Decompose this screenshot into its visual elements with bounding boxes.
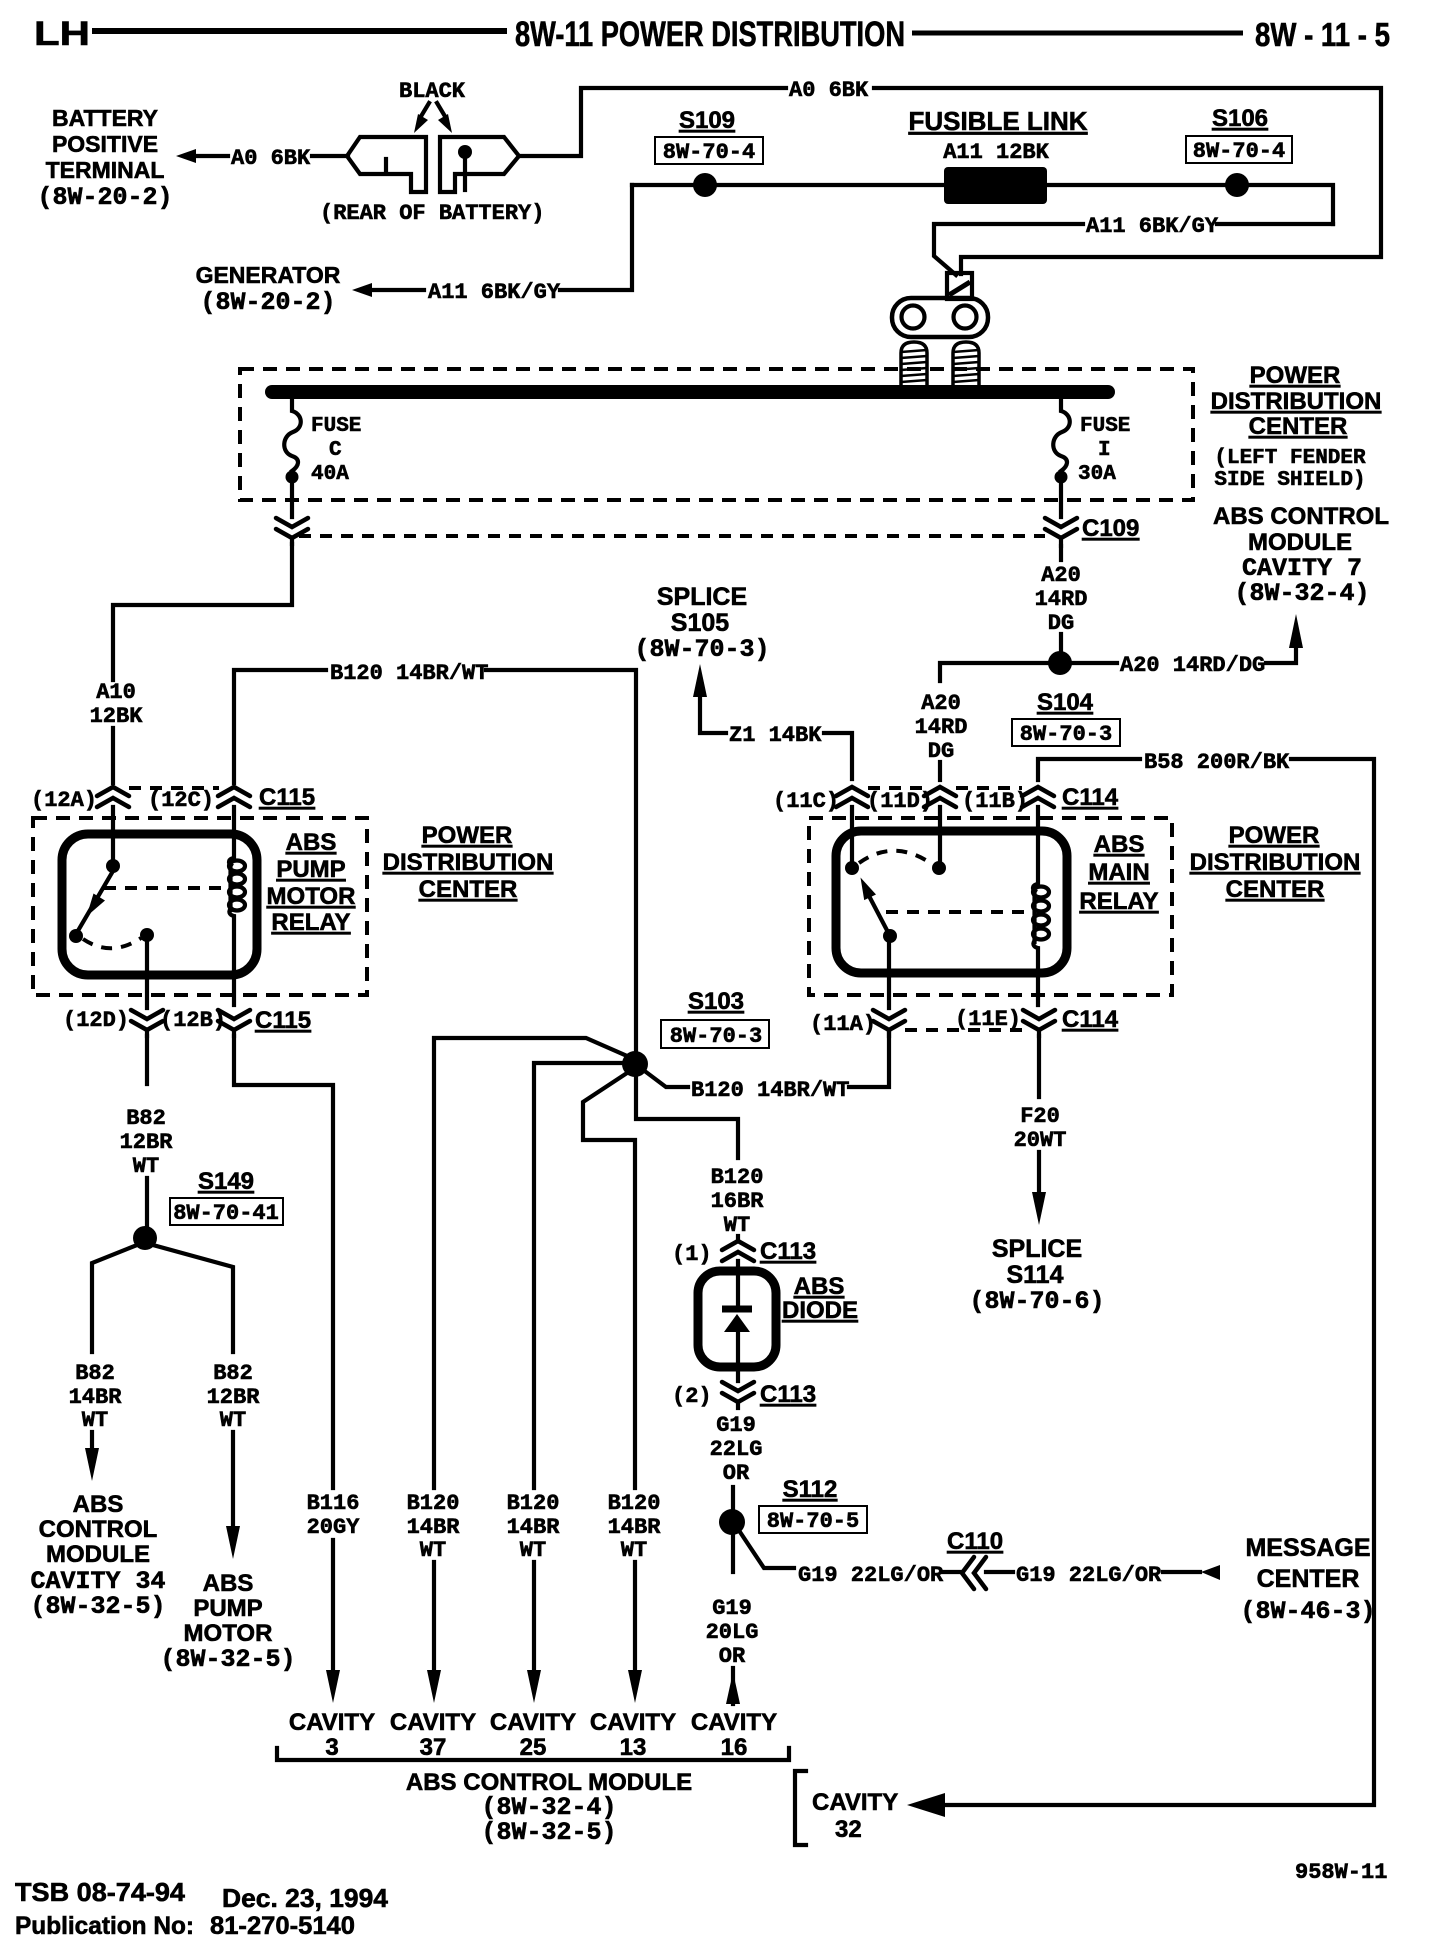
abs control module cavity 7 label: [1213, 503, 1389, 608]
svg-text:MODULE: MODULE: [46, 1541, 150, 1568]
main relay wire 11A internal: [887, 941, 891, 1008]
battery connector (rear of battery): [347, 137, 519, 192]
wire B120 14BR WT (S103 to cavity 37): [407, 1038, 627, 1703]
svg-text:B120: B120: [407, 1491, 460, 1516]
svg-text:POSITIVE: POSITIVE: [52, 131, 158, 157]
svg-text:A11 6BK/GY: A11 6BK/GY: [1086, 214, 1219, 239]
connector C114 pin 11D chevron: [867, 787, 956, 814]
relay NO contact dot: [69, 929, 83, 943]
connector C109 label: [1082, 515, 1139, 542]
svg-text:(12A): (12A): [31, 788, 97, 813]
svg-text:WT: WT: [420, 1538, 446, 1563]
splice S149: [133, 1168, 283, 1250]
power distribution center label (right): [1211, 362, 1382, 492]
svg-text:G19: G19: [716, 1413, 756, 1438]
fusible link element: [944, 167, 1047, 204]
svg-text:B82: B82: [213, 1361, 253, 1386]
wire B82 12BR WT (12D to S149): [120, 1036, 174, 1227]
svg-text:B58 200R/BK: B58 200R/BK: [1144, 750, 1290, 775]
svg-text:CAVITY: CAVITY: [812, 1789, 898, 1816]
svg-text:25: 25: [520, 1734, 547, 1761]
connector C110: [947, 1528, 1003, 1589]
svg-text:A0 6BK: A0 6BK: [789, 78, 869, 103]
svg-text:(8W-32-4): (8W-32-4): [1234, 579, 1369, 608]
wire A11 6BK/GY right segment: [934, 224, 1333, 275]
svg-text:B82: B82: [75, 1361, 115, 1386]
svg-text:C113: C113: [760, 1381, 816, 1408]
svg-text:S103: S103: [688, 988, 744, 1015]
main relay 11D contact dot: [932, 861, 946, 875]
svg-text:(11E): (11E): [955, 1007, 1021, 1032]
connector C115 top face dashed line: [129, 786, 219, 790]
connector C115 pin 12D chevron: [63, 1008, 163, 1036]
connector C115 label bottom: [255, 1007, 311, 1034]
wire A0 6BK top loop: [519, 88, 1381, 274]
svg-text:(8W-32-5): (8W-32-5): [30, 1592, 165, 1621]
battery stud eyelet: [892, 298, 988, 337]
relay pin 12A wire into common: [111, 807, 115, 864]
svg-text:B82: B82: [126, 1106, 166, 1131]
svg-text:ABS: ABS: [794, 1273, 845, 1300]
relay switch arm: [79, 871, 113, 929]
relay common contact dot: [106, 859, 120, 873]
label (REAR OF BATTERY): [320, 201, 544, 226]
svg-text:(2): (2): [672, 1384, 712, 1409]
svg-text:CONTROL: CONTROL: [39, 1516, 158, 1543]
svg-text:S109: S109: [679, 107, 735, 134]
splice S112: [719, 1476, 867, 1535]
svg-text:CAVITY: CAVITY: [289, 1709, 375, 1736]
arrow to generator: [352, 283, 424, 297]
svg-text:FUSE: FUSE: [1080, 415, 1130, 438]
svg-text:C114: C114: [1062, 784, 1119, 811]
arrow to battery positive terminal: [176, 149, 228, 163]
cavity 32 bracket: [795, 1771, 806, 1845]
battery stud terminal block: [947, 273, 972, 299]
connector C114 label bottom: [1062, 1006, 1119, 1033]
wire A20 14RD DG (S104 to 11D): [915, 663, 1048, 780]
svg-text:14RD: 14RD: [1035, 587, 1088, 612]
svg-text:(11B): (11B): [962, 789, 1028, 814]
relay coil actuation dashed line: [104, 886, 222, 890]
svg-text:(8W-70-6): (8W-70-6): [969, 1287, 1104, 1316]
svg-text:A20: A20: [921, 691, 961, 716]
svg-text:A10: A10: [96, 680, 136, 705]
connector C115 pin 12C chevron: [148, 787, 250, 813]
cavity 32 label: [812, 1789, 898, 1843]
label BLACK: [399, 79, 466, 104]
wire Z1 14BK to S105: [693, 664, 852, 779]
wire B120 14BR/WT (12C to S103): [234, 661, 636, 1051]
svg-text:OR: OR: [723, 1461, 750, 1486]
message center label: [1240, 1534, 1375, 1626]
svg-text:(8W-20-2): (8W-20-2): [37, 183, 172, 212]
wire G19 22LG/OR (C110 to message center): [986, 1563, 1220, 1588]
splice S109: [655, 107, 763, 197]
svg-text:13: 13: [620, 1734, 647, 1761]
svg-text:LH: LH: [34, 15, 90, 53]
svg-text:(12D): (12D): [63, 1008, 129, 1033]
svg-text:A20: A20: [1041, 563, 1081, 588]
svg-text:14BR: 14BR: [608, 1515, 662, 1540]
svg-text:Z1 14BK: Z1 14BK: [729, 723, 822, 748]
svg-text:8W-70-5: 8W-70-5: [767, 1509, 859, 1534]
svg-text:B120: B120: [711, 1165, 764, 1190]
svg-text:CAVITY: CAVITY: [691, 1709, 777, 1736]
power distribution center bus bar: [272, 385, 1108, 399]
abs main relay dashed box: [809, 818, 1172, 995]
svg-text:WT: WT: [133, 1154, 159, 1179]
svg-text:(8W-32-5): (8W-32-5): [481, 1818, 616, 1847]
power distribution center dashed box: [240, 369, 1193, 500]
svg-text:DISTRIBUTION: DISTRIBUTION: [1211, 388, 1382, 415]
svg-text:8W-11 POWER DISTRIBUTION: 8W-11 POWER DISTRIBUTION: [515, 15, 905, 54]
svg-text:G19 22LG/OR: G19 22LG/OR: [798, 1563, 944, 1588]
svg-text:C115: C115: [255, 1007, 311, 1034]
svg-text:(8W-46-3): (8W-46-3): [1240, 1597, 1375, 1626]
svg-text:(8W-32-5): (8W-32-5): [160, 1645, 295, 1674]
svg-text:WT: WT: [82, 1408, 108, 1433]
svg-text:C109: C109: [1082, 515, 1139, 542]
svg-text:12BK: 12BK: [90, 704, 144, 729]
svg-text:(LEFT FENDER: (LEFT FENDER: [1214, 447, 1366, 470]
callout arrows from BLACK: [414, 103, 452, 133]
header rule left: [92, 28, 507, 34]
fuse I 30A: [1053, 399, 1130, 486]
svg-text:DISTRIBUTION: DISTRIBUTION: [1190, 849, 1361, 876]
svg-text:SPLICE: SPLICE: [992, 1235, 1082, 1263]
svg-text:RELAY: RELAY: [271, 909, 350, 936]
svg-text:12BR: 12BR: [207, 1385, 261, 1410]
svg-text:30A: 30A: [1078, 463, 1116, 486]
main relay 11C contact dot: [845, 861, 859, 875]
node cavity 25 label: [490, 1709, 576, 1761]
generator label: [196, 262, 341, 317]
svg-text:8W-70-41: 8W-70-41: [173, 1201, 279, 1226]
svg-text:WT: WT: [621, 1538, 647, 1563]
svg-text:I: I: [1098, 439, 1111, 462]
splice S105 label: [634, 583, 769, 664]
svg-text:(11C): (11C): [773, 789, 839, 814]
svg-text:CENTER: CENTER: [1226, 876, 1325, 903]
relay wire 12D internal: [145, 941, 149, 1008]
wire B82 14BR WT (S149 left branch): [69, 1245, 137, 1481]
connector chevron below fuse C: [276, 518, 308, 544]
wire from label to battery connector: [312, 154, 348, 158]
svg-text:MOTOR: MOTOR: [267, 883, 356, 910]
wire B120 14BR WT (S103 to cavity 25): [507, 1063, 625, 1703]
svg-text:SIDE SHIELD): SIDE SHIELD): [1214, 469, 1365, 492]
svg-text:G19: G19: [712, 1596, 752, 1621]
svg-text:ABS: ABS: [203, 1570, 254, 1597]
svg-text:MODULE: MODULE: [1248, 529, 1352, 556]
wire F20 20WT: [1014, 1036, 1067, 1225]
svg-text:B120: B120: [608, 1491, 661, 1516]
svg-text:POWER: POWER: [422, 822, 513, 849]
splice S104: [1012, 651, 1120, 747]
abs control module bracket: [277, 1748, 789, 1760]
svg-text:A20 14RD/DG: A20 14RD/DG: [1120, 653, 1265, 678]
svg-text:GENERATOR: GENERATOR: [196, 262, 341, 288]
svg-text:WT: WT: [520, 1538, 546, 1563]
relay wire 12B internal: [232, 975, 236, 1005]
main relay switch arm: [861, 878, 891, 937]
svg-text:C114: C114: [1062, 1006, 1119, 1033]
footer TSB: [15, 1877, 389, 1940]
wire B82 12BR WT (S149 right branch): [153, 1245, 260, 1559]
svg-text:G19 22LG/OR: G19 22LG/OR: [1016, 1563, 1162, 1588]
svg-text:16: 16: [721, 1734, 748, 1761]
svg-text:40A: 40A: [311, 463, 349, 486]
svg-text:ABS: ABS: [73, 1491, 124, 1518]
svg-text:ABS: ABS: [1094, 831, 1145, 858]
svg-text:32: 32: [835, 1816, 862, 1843]
wire B120 14BR/WT (S103 to 11A): [646, 1033, 889, 1103]
wire G19 20LG OR (S112 to cavity 16): [706, 1535, 759, 1704]
node cavity 3 label: [289, 1709, 375, 1761]
wire A0 6BK label top: [789, 78, 869, 103]
connector C114 bottom face dashed line: [905, 1028, 1023, 1032]
svg-text:(12C): (12C): [148, 788, 214, 813]
node cavity 16 label: [691, 1709, 777, 1761]
svg-text:S106: S106: [1212, 105, 1268, 132]
diagram number 958W-11: [1295, 1860, 1387, 1885]
svg-text:14BR: 14BR: [69, 1385, 123, 1410]
wire A20 14RD/DG to cavity 7: [1072, 614, 1303, 678]
svg-text:A11 6BK/GY: A11 6BK/GY: [428, 280, 561, 305]
connector C114 label top: [1062, 784, 1119, 811]
relay output contact dot: [140, 928, 154, 942]
wire A11 6BK/GY label left: [428, 280, 561, 305]
svg-text:B120 14BR/WT: B120 14BR/WT: [691, 1078, 849, 1103]
node cavity 37 label: [390, 1709, 476, 1761]
connector C113 pin 1: [672, 1238, 816, 1267]
svg-text:DIODE: DIODE: [782, 1297, 858, 1324]
svg-text:RELAY: RELAY: [1079, 888, 1158, 915]
wire B58 200R/BK: [907, 750, 1374, 1817]
wire fuse C to connector: [290, 477, 294, 517]
svg-text:FUSE: FUSE: [311, 415, 361, 438]
connector C114 top face dashed line right: [956, 786, 1022, 790]
splice S106: [1186, 105, 1292, 197]
splice S103: [622, 988, 769, 1077]
svg-text:S149: S149: [198, 1168, 254, 1195]
main relay dashed arc: [859, 851, 932, 864]
svg-text:POWER: POWER: [1250, 362, 1341, 389]
svg-text:TERMINAL: TERMINAL: [46, 157, 165, 183]
header page number 8W-11-5: [1255, 16, 1390, 53]
wire B120 14BR WT (S103 to cavity 13): [583, 1073, 661, 1703]
connector C114 pin 11E chevron: [955, 1007, 1055, 1036]
svg-text:CAVITY: CAVITY: [590, 1709, 676, 1736]
svg-text:BLACK: BLACK: [399, 79, 466, 104]
svg-text:(REAR OF BATTERY): (REAR OF BATTERY): [320, 201, 544, 226]
abs diode: [698, 1261, 776, 1381]
wire A0 6BK label left: [231, 146, 311, 171]
svg-text:Dec. 23, 1994: Dec. 23, 1994: [222, 1883, 389, 1913]
svg-text:A0 6BK: A0 6BK: [231, 146, 311, 171]
svg-text:S112: S112: [783, 1476, 838, 1503]
wire G19 22LG/OR (S112 to C110): [740, 1532, 960, 1588]
svg-text:ABS CONTROL: ABS CONTROL: [1213, 503, 1389, 530]
svg-text:C: C: [329, 439, 342, 462]
relay coil: [229, 807, 245, 975]
svg-text:F20: F20: [1020, 1104, 1060, 1129]
wire A10 12BK: [90, 544, 292, 783]
connector C115 label top: [259, 784, 315, 811]
svg-text:(11D): (11D): [867, 789, 933, 814]
svg-text:S104: S104: [1037, 689, 1094, 716]
relay switch dashed arc: [83, 938, 141, 948]
fusible link label: [908, 106, 1087, 165]
svg-text:14BR: 14BR: [407, 1515, 461, 1540]
svg-text:WT: WT: [220, 1408, 246, 1433]
battery stud threads: [901, 342, 979, 390]
svg-text:ABS: ABS: [286, 829, 337, 856]
abs pump motor relay dashed box: [33, 818, 367, 995]
svg-text:C110: C110: [947, 1528, 1003, 1555]
abs diode label: [782, 1273, 858, 1324]
main relay coil actuation dashed line: [886, 910, 1026, 914]
svg-text:20WT: 20WT: [1014, 1128, 1067, 1153]
svg-text:CENTER: CENTER: [1249, 413, 1348, 440]
svg-text:ABS CONTROL MODULE: ABS CONTROL MODULE: [406, 1769, 692, 1796]
svg-text:FUSIBLE LINK: FUSIBLE LINK: [908, 106, 1087, 136]
svg-text:B116: B116: [307, 1491, 360, 1516]
abs main relay label: [1079, 831, 1158, 915]
abs pump motor relay body: [62, 834, 257, 975]
connector C109 chevron: [1045, 518, 1077, 546]
connector face dashed line: [299, 534, 1045, 538]
wire A11 6BK/GY generator to bus: [560, 185, 632, 290]
abs pump motor label: [160, 1570, 295, 1674]
svg-text:S105: S105: [671, 609, 729, 637]
svg-text:MOTOR: MOTOR: [184, 1620, 273, 1647]
connector C114 pin 11C chevron: [773, 787, 868, 814]
svg-text:SPLICE: SPLICE: [657, 583, 747, 611]
svg-text:(8W-20-2): (8W-20-2): [200, 288, 335, 317]
svg-text:PUMP: PUMP: [193, 1595, 262, 1622]
main relay pin 11D wire internal: [938, 807, 942, 862]
svg-text:8W - 11 - 5: 8W - 11 - 5: [1255, 16, 1390, 53]
connector C115 pin 12B chevron: [160, 1008, 250, 1036]
svg-text:CAVITY: CAVITY: [390, 1709, 476, 1736]
connector C115 pin 12A chevron: [31, 787, 129, 813]
svg-text:TSB 08-74-94: TSB 08-74-94: [15, 1877, 186, 1907]
connector C113 pin 2: [672, 1381, 816, 1409]
svg-text:MAIN: MAIN: [1088, 859, 1149, 886]
wire G19 22LG OR (diode to S112): [710, 1413, 763, 1509]
svg-text:C113: C113: [760, 1238, 816, 1265]
svg-text:(11A): (11A): [810, 1012, 876, 1037]
svg-text:A11 12BK: A11 12BK: [943, 140, 1049, 165]
battery positive terminal label: [37, 105, 172, 212]
splice S114 label: [969, 1235, 1104, 1316]
svg-text:Publication No:: Publication No:: [15, 1912, 194, 1940]
main relay arm contact dot: [883, 929, 897, 943]
header rule right: [912, 31, 1243, 36]
svg-text:(1): (1): [672, 1242, 712, 1267]
fuse C 40A: [284, 399, 361, 486]
svg-text:CAVITY: CAVITY: [490, 1709, 576, 1736]
power distribution center label (main relay): [1190, 822, 1361, 903]
node cavity 13 label: [590, 1709, 676, 1761]
svg-text:CENTER: CENTER: [1257, 1565, 1360, 1593]
svg-text:MESSAGE: MESSAGE: [1245, 1534, 1370, 1562]
svg-text:POWER: POWER: [1229, 822, 1320, 849]
wire B120 16BR WT (S103 to diode): [636, 1077, 764, 1240]
svg-text:8W-70-4: 8W-70-4: [663, 140, 755, 165]
abs pump motor relay label: [267, 829, 356, 936]
header title 8W-11 POWER DISTRIBUTION: [515, 15, 905, 54]
connector C114 pin 11B chevron: [962, 787, 1054, 814]
connector C114 pin 11A chevron: [810, 1010, 905, 1037]
connector C114 top face dashed line left: [868, 786, 924, 790]
svg-text:PUMP: PUMP: [276, 856, 345, 883]
abs main relay body: [836, 831, 1067, 973]
svg-text:22LG: 22LG: [710, 1437, 763, 1462]
svg-text:CENTER: CENTER: [419, 876, 518, 903]
bus wire y185: [632, 185, 1333, 224]
svg-text:14BR: 14BR: [507, 1515, 561, 1540]
main relay pin 11C wire: [850, 807, 854, 862]
svg-text:20LG: 20LG: [706, 1620, 759, 1645]
svg-text:8W-70-3: 8W-70-3: [1020, 722, 1112, 747]
svg-text:20GY: 20GY: [307, 1515, 361, 1540]
svg-text:8W-70-3: 8W-70-3: [670, 1024, 762, 1049]
svg-text:DISTRIBUTION: DISTRIBUTION: [383, 849, 554, 876]
svg-text:B120 14BR/WT: B120 14BR/WT: [330, 661, 488, 686]
svg-text:12BR: 12BR: [120, 1130, 174, 1155]
svg-text:16BR: 16BR: [711, 1189, 765, 1214]
abs control module label: [406, 1769, 692, 1847]
svg-text:B120: B120: [507, 1491, 560, 1516]
main relay coil: [1033, 807, 1049, 1005]
power distribution center label (pump relay): [383, 822, 554, 903]
wire A11 6BK/GY label right: [1086, 214, 1219, 239]
wire B116 20GY (12B to cavity 3): [234, 1036, 360, 1703]
svg-text:BATTERY: BATTERY: [52, 105, 158, 131]
wire fuse I to connector C109: [1059, 477, 1063, 517]
svg-text:14RD: 14RD: [915, 715, 968, 740]
svg-text:OR: OR: [719, 1644, 746, 1669]
svg-text:C115: C115: [259, 784, 315, 811]
svg-text:8W-70-4: 8W-70-4: [1193, 139, 1285, 164]
svg-text:S114: S114: [1006, 1261, 1063, 1289]
svg-text:37: 37: [420, 1734, 447, 1761]
svg-text:(8W-70-3): (8W-70-3): [634, 635, 769, 664]
header LH: [34, 15, 90, 53]
wire A20 14RD DG (fuse I to S104): [1035, 546, 1088, 651]
svg-text:3: 3: [325, 1734, 338, 1761]
abs control module cavity 34 label: [30, 1491, 165, 1621]
svg-text:958W-11: 958W-11: [1295, 1860, 1387, 1885]
svg-text:81-270-5140: 81-270-5140: [210, 1912, 355, 1940]
